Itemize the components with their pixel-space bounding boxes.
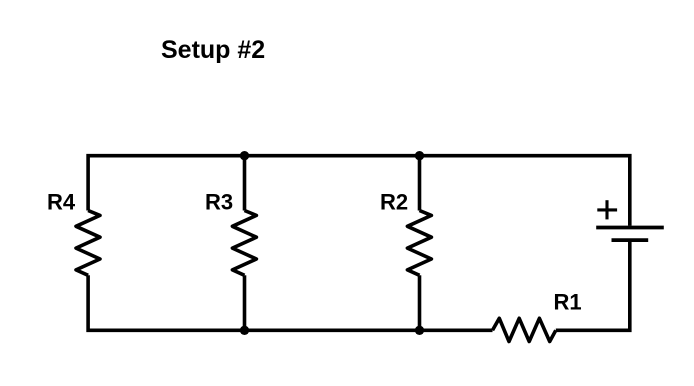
node junction dot (R2 top) [415,151,424,160]
battery V1 negative plate [612,238,649,242]
resistor R1 [493,318,556,341]
battery V1 positive plate [596,226,664,230]
battery polarity + sign [597,200,617,219]
wire: bottom net left part (below R4 to R1 left end) [88,275,492,330]
resistor R4 [76,211,100,276]
wire: R2 branch top [418,156,422,211]
wire: R2 branch bottom [418,275,422,330]
wire: bottom net right part (R1 right end up to battery -) [556,240,630,330]
wire: R3 branch bottom [243,275,247,330]
wire: top net (left riser, top rail, right riser to battery +) [88,156,630,226]
node junction dot (R3 top) [240,151,249,160]
svg-text:R2: R2 [380,190,408,215]
resistor R3 [232,211,256,276]
svg-text:Setup #2: Setup #2 [161,36,265,64]
svg-text:R1: R1 [554,290,582,315]
svg-text:R3: R3 [205,190,233,215]
wire: R3 branch top [243,156,247,211]
svg-text:R4: R4 [47,190,76,215]
resistor R2 [407,211,431,276]
node junction dot (R3 bottom) [240,326,249,335]
node junction dot (R2 bottom) [415,326,424,335]
